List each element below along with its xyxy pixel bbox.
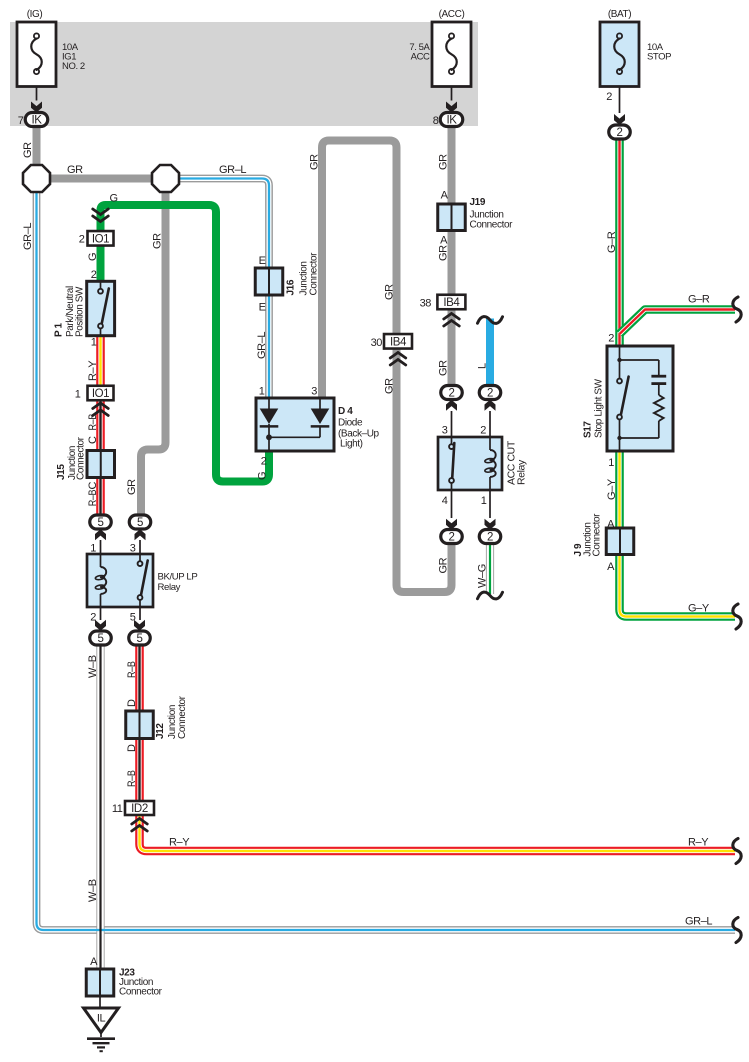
svg-text:2: 2: [487, 388, 493, 400]
svg-text:R–B: R–B: [87, 414, 99, 431]
svg-text:5: 5: [98, 633, 104, 645]
svg-text:38: 38: [420, 298, 432, 310]
svg-text:1: 1: [91, 337, 97, 349]
svg-text:5: 5: [137, 517, 143, 529]
svg-text:1: 1: [75, 389, 81, 401]
svg-text:11: 11: [112, 803, 123, 815]
svg-text:(ACC): (ACC): [439, 9, 465, 20]
svg-text:Connector: Connector: [470, 220, 514, 231]
svg-text:IK: IK: [446, 115, 457, 127]
svg-text:GR: GR: [152, 233, 164, 249]
svg-text:2: 2: [480, 425, 486, 437]
svg-text:IK: IK: [31, 115, 42, 127]
svg-text:A: A: [441, 190, 449, 202]
svg-text:Connector: Connector: [309, 252, 320, 296]
svg-text:GR: GR: [438, 557, 450, 573]
svg-text:P 1: P 1: [54, 323, 65, 337]
svg-text:GR–L: GR–L: [219, 164, 246, 176]
svg-text:ID2: ID2: [131, 803, 148, 815]
svg-text:5: 5: [98, 517, 104, 529]
svg-text:D: D: [126, 744, 138, 752]
svg-text:IB4: IB4: [390, 336, 407, 348]
svg-text:GR: GR: [438, 154, 450, 170]
svg-text:3: 3: [311, 386, 317, 398]
svg-text:G: G: [110, 193, 118, 205]
svg-text:Light): Light): [340, 439, 363, 450]
svg-text:R–B: R–B: [87, 490, 99, 507]
svg-text:GR: GR: [309, 154, 321, 170]
svg-text:D: D: [126, 699, 138, 707]
svg-text:4: 4: [442, 495, 448, 507]
svg-text:W–B: W–B: [87, 655, 99, 678]
svg-text:G–R: G–R: [606, 231, 618, 253]
svg-text:3: 3: [130, 543, 136, 555]
svg-text:5: 5: [130, 612, 136, 624]
svg-text:2: 2: [606, 91, 612, 103]
svg-text:Connector: Connector: [76, 436, 87, 480]
svg-text:1: 1: [481, 495, 487, 507]
svg-text:2: 2: [449, 388, 455, 400]
svg-text:C: C: [87, 482, 99, 490]
svg-text:GR–L: GR–L: [256, 332, 268, 359]
svg-text:J12: J12: [155, 723, 166, 739]
svg-text:2: 2: [79, 234, 85, 246]
svg-text:3: 3: [442, 425, 448, 437]
svg-text:J16: J16: [286, 279, 297, 295]
svg-text:GR: GR: [438, 245, 450, 261]
svg-text:IL: IL: [97, 1013, 106, 1025]
svg-text:STOP: STOP: [647, 52, 671, 63]
svg-text:GR–L: GR–L: [22, 223, 34, 250]
svg-text:8: 8: [433, 115, 439, 127]
svg-text:GR: GR: [22, 142, 34, 158]
svg-text:GR: GR: [384, 284, 396, 300]
svg-text:IB4: IB4: [443, 297, 460, 309]
svg-text:G–Y: G–Y: [606, 478, 618, 500]
svg-text:2: 2: [449, 532, 455, 544]
svg-text:GR–L: GR–L: [685, 916, 712, 928]
svg-text:IO1: IO1: [92, 388, 109, 400]
svg-text:Stop Light SW: Stop Light SW: [594, 378, 605, 438]
svg-text:30: 30: [371, 337, 383, 349]
svg-text:W–B: W–B: [87, 879, 99, 902]
svg-text:2: 2: [261, 456, 267, 468]
svg-text:2: 2: [608, 333, 614, 345]
svg-text:Connector: Connector: [592, 513, 603, 557]
svg-text:BK/UP LP: BK/UP LP: [158, 572, 198, 583]
svg-text:1: 1: [90, 543, 96, 555]
svg-text:Connector: Connector: [177, 695, 188, 739]
svg-text:R–Y: R–Y: [688, 837, 709, 849]
svg-text:Connector: Connector: [119, 987, 163, 998]
svg-text:Relay: Relay: [516, 459, 528, 485]
svg-text:E: E: [259, 255, 266, 267]
svg-text:R–Y: R–Y: [87, 360, 99, 381]
svg-text:A: A: [607, 561, 615, 573]
svg-text:J19: J19: [470, 197, 486, 208]
svg-text:5: 5: [137, 633, 143, 645]
svg-text:D 4: D 4: [338, 406, 353, 417]
svg-text:R–Y: R–Y: [169, 837, 190, 849]
svg-text:J15: J15: [56, 464, 67, 480]
svg-text:G–R: G–R: [688, 294, 710, 306]
svg-text:2: 2: [617, 127, 623, 139]
svg-text:A: A: [607, 519, 615, 531]
svg-text:G: G: [257, 472, 269, 480]
svg-text:1: 1: [608, 457, 614, 469]
svg-text:Position SW: Position SW: [75, 286, 86, 337]
svg-text:GR: GR: [438, 360, 450, 376]
svg-text:L: L: [476, 363, 488, 369]
svg-text:R–B: R–B: [126, 770, 138, 787]
svg-text:ACC: ACC: [411, 52, 430, 63]
svg-text:GR: GR: [384, 378, 396, 394]
svg-text:Relay: Relay: [158, 582, 181, 593]
svg-text:R–B: R–B: [126, 661, 138, 678]
svg-text:A: A: [90, 956, 98, 968]
svg-text:G: G: [87, 253, 99, 261]
svg-text:2: 2: [90, 612, 96, 624]
svg-text:E: E: [259, 302, 266, 314]
svg-text:IO1: IO1: [92, 233, 109, 245]
svg-text:C: C: [87, 436, 99, 444]
svg-text:7: 7: [18, 115, 24, 127]
svg-text:2: 2: [91, 269, 97, 281]
svg-text:GR: GR: [67, 164, 83, 176]
svg-text:2: 2: [487, 532, 493, 544]
svg-text:G–Y: G–Y: [688, 603, 710, 615]
svg-text:(BAT): (BAT): [608, 9, 631, 20]
svg-text:GR: GR: [126, 479, 138, 495]
svg-text:A: A: [440, 235, 448, 247]
svg-text:NO. 2: NO. 2: [62, 61, 85, 72]
svg-text:S17: S17: [583, 421, 594, 438]
svg-text:Diode: Diode: [338, 418, 363, 429]
svg-text:(IG): (IG): [27, 9, 43, 20]
svg-text:1: 1: [259, 386, 265, 398]
svg-text:W–G: W–G: [476, 564, 488, 588]
